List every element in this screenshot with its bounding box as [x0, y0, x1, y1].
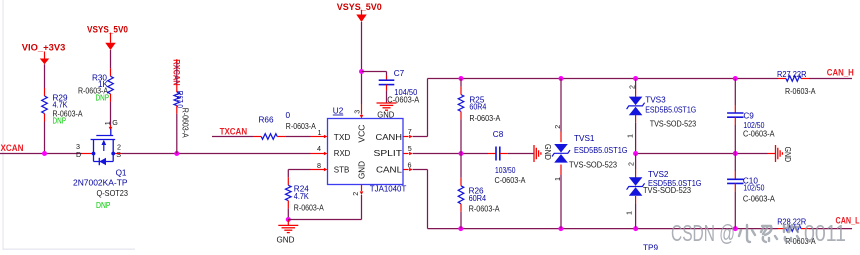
- svg-text:2: 2: [351, 192, 360, 196]
- wire VSYS to VCC pin: [361, 22, 363, 104]
- svg-text:0: 0: [286, 111, 291, 120]
- junction CANH/TVS3: [633, 76, 638, 81]
- wire RXCAN column: [176, 59, 178, 63]
- junction VCC/C7: [359, 69, 364, 74]
- wire SPLIT: [413, 153, 488, 155]
- capacitor C9: [734, 105, 736, 113]
- svg-text:XCAN: XCAN: [1, 143, 24, 153]
- pin 2 GND: [361, 185, 363, 192]
- wire CANH bus: [428, 78, 779, 80]
- svg-text:D: D: [76, 150, 81, 159]
- svg-text:8: 8: [317, 161, 321, 170]
- svg-text:2: 2: [627, 162, 636, 166]
- svg-text:7: 7: [408, 127, 412, 136]
- svg-text:Q-SOT23: Q-SOT23: [97, 189, 129, 198]
- pin 4 RXD: [311, 153, 325, 155]
- svg-text:TXCAN: TXCAN: [220, 127, 248, 137]
- junction SPLIT/R25R26: [459, 151, 464, 156]
- sheet border bottom line: [3, 248, 135, 250]
- svg-text:TVS3: TVS3: [645, 96, 666, 105]
- svg-text:GND: GND: [377, 110, 394, 119]
- resistor R66: [253, 136, 261, 138]
- wire CANL riser from pin 6: [413, 169, 428, 171]
- svg-text:C-0603-A: C-0603-A: [495, 176, 526, 185]
- wire R66 to TXD pin: [285, 136, 310, 138]
- resistor R29: [44, 88, 46, 96]
- wire R29 to XCAN net: [44, 122, 46, 154]
- junction R24/IC gnd: [286, 217, 291, 222]
- resistor R24: [287, 177, 289, 185]
- pin 8 STB: [311, 169, 325, 171]
- svg-text:102/50: 102/50: [743, 184, 764, 193]
- svg-text:R-0603-A: R-0603-A: [286, 122, 316, 131]
- svg-text:103/50: 103/50: [495, 166, 516, 175]
- svg-text:1: 1: [626, 134, 635, 138]
- junction mid/TVS: [633, 151, 638, 156]
- svg-text:GND: GND: [277, 236, 295, 245]
- wire CANH to TVS3: [635, 79, 637, 90]
- svg-text:CSDN @: CSDN @: [671, 220, 735, 246]
- ground GND (R24): [287, 220, 289, 226]
- svg-text:1: 1: [625, 211, 634, 215]
- svg-text:SPLIT: SPLIT: [374, 148, 403, 158]
- svg-text:60R4: 60R4: [469, 103, 486, 112]
- wire TXCAN: [212, 136, 253, 138]
- pin 6 CANL: [403, 169, 409, 171]
- svg-text:CANH: CANH: [376, 132, 403, 142]
- svg-text:G: G: [112, 118, 118, 127]
- junction CANL/TVS1: [558, 226, 563, 231]
- svg-text:TJA1040T: TJA1040T: [370, 185, 407, 194]
- wire R28 to CAN_L: [809, 228, 852, 230]
- ground GND (C7): [386, 91, 388, 103]
- wire VIO_+3V3 to R29: [44, 64, 46, 88]
- watermark: [671, 220, 846, 246]
- sheet border vertical line: [2, 0, 4, 250]
- junction CANH/TVS1: [559, 76, 564, 81]
- wire mid to TVS2: [635, 154, 637, 170]
- svg-text:VIO_+3V3: VIO_+3V3: [22, 43, 66, 53]
- svg-text:R-0603-A: R-0603-A: [181, 108, 190, 138]
- resistor R67: [176, 84, 178, 92]
- svg-text:GND: GND: [783, 147, 792, 163]
- wire mid to C10: [734, 154, 736, 172]
- wire C8 to GND: [508, 153, 534, 155]
- svg-text:R27 22R: R27 22R: [777, 70, 807, 79]
- svg-text:R67 0: R67 0: [175, 91, 184, 108]
- resistor R30: [110, 68, 112, 76]
- svg-text:ESD5B5.0ST1G: ESD5B5.0ST1G: [574, 146, 628, 155]
- junction mid/C9C10: [733, 151, 738, 156]
- pin 3 VCC: [361, 104, 363, 115]
- svg-text:TVS2: TVS2: [648, 170, 669, 179]
- wire R30 to Q1 gate: [110, 102, 112, 125]
- svg-text:R66: R66: [259, 116, 274, 125]
- resistor R25: [460, 87, 462, 95]
- svg-text:R-0603-A: R-0603-A: [294, 204, 324, 213]
- svg-text:4.7K: 4.7K: [53, 101, 68, 110]
- pin 7 CANH: [403, 136, 409, 138]
- svg-text:RXD: RXD: [334, 148, 351, 158]
- resistor R26: [460, 178, 462, 186]
- svg-text:1: 1: [318, 128, 322, 137]
- junction CANL/C10: [733, 226, 738, 231]
- wire R25 to SPLIT: [460, 119, 462, 153]
- capacitor C10: [734, 171, 736, 179]
- svg-text:S: S: [116, 150, 121, 159]
- wire SPLIT to R26: [460, 154, 462, 178]
- wire R26 to CANL: [460, 212, 462, 229]
- junction CANH/C9: [733, 76, 738, 81]
- svg-text:DNP: DNP: [96, 201, 111, 210]
- svg-text:STB: STB: [334, 165, 350, 175]
- wire VSYS_5V0 to R30: [110, 50, 112, 68]
- ground GND (C8, rotated): [533, 145, 535, 162]
- svg-text:TVS-SOD-523: TVS-SOD-523: [650, 120, 697, 129]
- wire CANH to TVS1: [560, 79, 562, 132]
- capacitor C8: [488, 153, 496, 155]
- wire C9 to mid: [734, 125, 736, 154]
- wire CANL bus: [428, 228, 779, 230]
- wire R67 to XCAN: [176, 114, 178, 154]
- wire IC pin2 to GND: [361, 195, 363, 220]
- wire R27 to CAN_H: [809, 78, 852, 80]
- wire TVS3 to mid: [635, 123, 637, 154]
- junction XCAN/RXCAN: [174, 151, 179, 156]
- TVS diode TVS2: [635, 169, 637, 178]
- wire TVS2 to CANL: [635, 204, 637, 229]
- svg-text:Q1: Q1: [116, 169, 127, 178]
- svg-text:U2: U2: [333, 107, 344, 116]
- svg-text:C8: C8: [493, 130, 504, 139]
- svg-text:TVS1: TVS1: [574, 134, 595, 143]
- TVS diode TVS1: [560, 132, 562, 143]
- svg-text:2: 2: [627, 85, 636, 89]
- wire STB to R24: [288, 169, 310, 171]
- svg-text:TP9: TP9: [643, 244, 658, 251]
- svg-text:TXD: TXD: [334, 132, 351, 142]
- svg-text:GND: GND: [357, 161, 367, 179]
- svg-text:R-0603-A: R-0603-A: [469, 205, 500, 214]
- wire mid (TVS to C9/C10 midpoint to GND): [636, 153, 768, 155]
- junction CANH/R25: [459, 76, 464, 81]
- pin 5 SPLIT: [403, 153, 409, 155]
- svg-text:0011: 0011: [804, 220, 846, 246]
- wire XCAN horizontal: [0, 153, 82, 155]
- svg-text:6: 6: [408, 161, 412, 170]
- svg-text:4: 4: [317, 144, 321, 153]
- junction CANL/TVS2: [633, 226, 638, 231]
- svg-text:4.7K: 4.7K: [294, 192, 309, 201]
- junction XCAN/VIO: [42, 151, 47, 156]
- svg-text:C9: C9: [743, 111, 754, 120]
- svg-text:2: 2: [553, 125, 562, 129]
- svg-text:CANL: CANL: [376, 165, 402, 175]
- junction CANL/R26: [458, 226, 463, 231]
- svg-text:2N7002KA-TP: 2N7002KA-TP: [73, 178, 128, 187]
- wire R24 to GND: [287, 209, 289, 220]
- resistor R28: [778, 228, 786, 230]
- svg-text:ESD5B5.0ST1G: ESD5B5.0ST1G: [645, 105, 696, 114]
- svg-text:1: 1: [103, 121, 112, 125]
- pin 1 TXD: [311, 136, 325, 138]
- wire CANH to R25: [460, 79, 462, 87]
- svg-text:VSYS_5V0: VSYS_5V0: [87, 24, 128, 34]
- wire CANH riser from pin 7: [413, 136, 428, 138]
- svg-text:C7: C7: [394, 69, 405, 78]
- svg-text:GND: GND: [543, 144, 552, 160]
- svg-text:C-0603-A: C-0603-A: [743, 130, 775, 139]
- resistor R27: [778, 78, 786, 80]
- svg-text:5: 5: [408, 144, 412, 153]
- svg-text:VCC: VCC: [357, 125, 367, 143]
- TVS diode TVS3: [635, 89, 637, 97]
- svg-text:R-0603-A: R-0603-A: [469, 114, 500, 123]
- svg-text:CAN_H: CAN_H: [827, 68, 854, 78]
- svg-text:DNP: DNP: [53, 116, 67, 125]
- transistor Q1 2N7002KA-TP: [91, 129, 116, 165]
- svg-text:VSYS_5V0: VSYS_5V0: [337, 2, 382, 12]
- svg-text:TVS-SOD-523: TVS-SOD-523: [569, 161, 617, 170]
- svg-text:3: 3: [352, 110, 361, 114]
- ground GND (mid, rotated): [768, 153, 776, 155]
- wire TVS1 to CANL: [560, 175, 562, 229]
- wire CANH to C9: [734, 79, 736, 106]
- capacitor C7: [362, 71, 387, 73]
- svg-text:TVS-SOD-523: TVS-SOD-523: [643, 186, 691, 195]
- svg-text:DNP: DNP: [96, 93, 110, 102]
- IC U2 TJA1040T body: [328, 119, 404, 185]
- svg-text:60R4: 60R4: [469, 194, 487, 203]
- svg-text:C-0603-A: C-0603-A: [743, 194, 775, 203]
- wire C10 to CANL: [734, 191, 736, 228]
- svg-text:R-0603-A: R-0603-A: [785, 87, 816, 96]
